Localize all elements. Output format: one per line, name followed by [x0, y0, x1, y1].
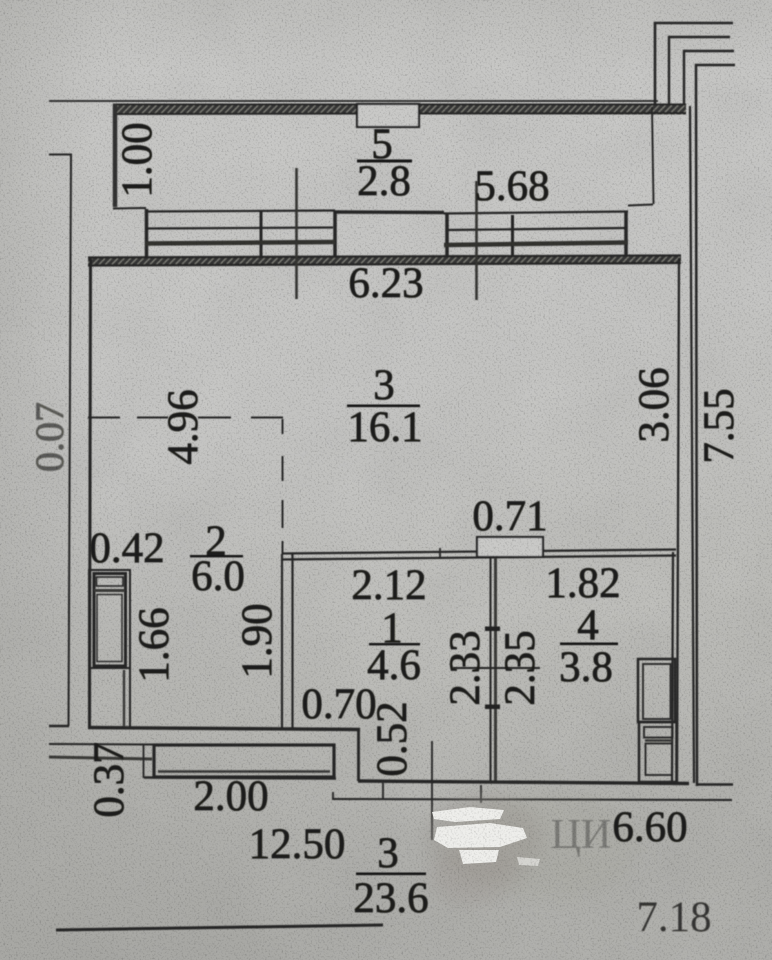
window: left unit right edge: [333, 211, 337, 262]
dim line: 2.33/2.35 horizontal: [453, 667, 540, 669]
tick: extension at x383: [382, 783, 384, 800]
jamb: left edge of 2.00 window: [143, 744, 145, 778]
tick: divider upper tick: [485, 627, 500, 632]
room label: fraction bar room 3: [347, 405, 420, 408]
smudge: whiteout patch: [432, 807, 540, 866]
furniture: closet top shelf: [97, 577, 124, 586]
furniture: closet lower right line: [123, 670, 125, 726]
wall: room 2 bottom exterior wall: [88, 728, 360, 730]
wall: divider room2/room1 right line: [291, 554, 293, 728]
wall: divider room2/room1 left line: [281, 554, 283, 728]
outer boundary: left lot line bottom foot: [49, 725, 69, 727]
wall: divider room1/room4 solid line: [490, 558, 492, 781]
wall: balcony right wall: [652, 107, 654, 204]
baseline: bottom long line: [56, 925, 383, 930]
window: right unit hatched sill row: [444, 243, 628, 246]
window: right unit left edge: [445, 214, 449, 261]
tick: bottom line left end: [332, 792, 334, 800]
wall: room 1 / room 4 bottom exterior wall: [358, 781, 689, 784]
furniture: cabinet upper inner panel: [643, 664, 671, 719]
tick: extension at x432: [431, 741, 433, 840]
sill line: below room 2 wall upper: [49, 743, 153, 746]
window: left unit hatched sill row: [146, 242, 335, 244]
window: left unit left pier: [145, 209, 149, 262]
outer wall: top-right stepped parapet L1: [655, 23, 733, 106]
furniture: cabinet lower hatched divider: [645, 739, 672, 742]
wall: room 3 top exterior wall hatched band: [88, 256, 681, 266]
window: right window unit top line: [444, 212, 628, 214]
outer wall: right exterior wall middle line: [690, 106, 694, 783]
wall: balcony interior bottom edge left segment: [113, 207, 146, 210]
furniture: cabinet lower inner panel: [646, 744, 673, 776]
room label: fraction bar balcony: [357, 160, 412, 163]
window: left unit middle divider: [260, 211, 263, 262]
room label: fraction bar room 1: [369, 643, 420, 645]
furniture: cabinet room 4 upper box: [638, 659, 675, 722]
tick: extension at x481: [480, 785, 482, 803]
furniture: closet inner thick box: [94, 574, 126, 667]
zone line: dashed boundary vertical: [282, 419, 284, 434]
smudge: darker blotch under whiteout: [426, 790, 640, 904]
furniture: closet inner panel: [97, 595, 122, 662]
outer wall: top-right stepped parapet L2: [669, 37, 730, 105]
wall: balcony top hatched band: [113, 104, 686, 115]
wall: step down at room 1: [357, 729, 360, 781]
window: left unit middle row: [148, 228, 333, 229]
wall: room 4 right wall line A: [672, 552, 673, 782]
total label: fraction bar: [356, 873, 426, 876]
wall: balcony top thin line: [49, 100, 658, 102]
wall: room 1 / room 4 top wall upper line: [282, 550, 676, 554]
wall: divider room1/room4 hatched line: [494, 558, 497, 781]
door opening: hall door box (0.71): [477, 537, 543, 557]
outer wall: right exterior wall outer line with top step L4: [696, 65, 735, 786]
outer wall: right exterior wall bottom foot: [696, 783, 733, 786]
tick: extension mark at door left: [439, 548, 441, 559]
furniture: cabinet lower small drawer: [644, 727, 673, 738]
wall: room 3 / room 2 left exterior wall: [90, 258, 91, 727]
axis line: window axis right: [475, 181, 478, 300]
wall: room 3 right wall inner line: [677, 258, 679, 782]
room label: fraction bar room 2: [190, 555, 243, 557]
wall: balcony left wall: [113, 104, 118, 207]
window: 2.00 box bottom extension: [144, 778, 336, 779]
window: left window unit top line: [146, 211, 335, 212]
zone line: dashed boundary room2/room3 horizontal: [88, 417, 120, 419]
furniture: closet in room 2 outer box: [89, 570, 130, 728]
window: door gap merged line: [335, 210, 444, 214]
door opening: balcony door box (top): [357, 104, 419, 127]
furniture: closet lower divider: [89, 667, 130, 669]
axis line: window axis left: [295, 168, 298, 299]
window: right unit middle row: [448, 228, 625, 230]
wall: room 1 / room 4 top wall lower line: [282, 556, 676, 560]
wall: balcony interior bottom edge right segment: [628, 205, 653, 206]
tick: divider lower tick: [485, 705, 500, 710]
furniture: cabinet room 4 lower box: [639, 722, 677, 782]
sill line: below room 2 wall hatched: [49, 757, 152, 759]
dim line: bottom 6.60 line: [332, 799, 732, 800]
furniture: closet hatched divider: [94, 589, 125, 592]
window: right unit right edge: [624, 212, 628, 261]
room label: fraction bar room 4: [560, 643, 618, 646]
outer wall: top-right stepped parapet L3: [684, 51, 734, 104]
window: right unit middle divider: [511, 215, 514, 261]
window: 2.00 balcony window box: [154, 745, 334, 777]
outer boundary: left lot line with top foot: [49, 155, 71, 727]
window: 2.00 box inner hatched line: [158, 770, 330, 773]
